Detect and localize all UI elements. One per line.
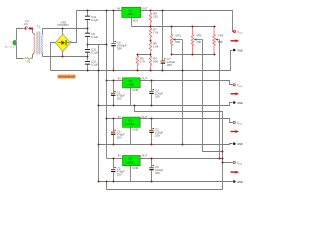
svg-text:OUT: OUT xyxy=(141,154,147,158)
svg-text:0.1µF: 0.1µF xyxy=(91,18,98,22)
svg-text:Vout2: Vout2 xyxy=(237,83,243,88)
resistor R7 xyxy=(149,27,159,40)
wire gnd bus vertical x97.9 xyxy=(98,45,100,182)
wire IC1 out rail to Vout1 xyxy=(141,11,235,32)
svg-text:VR1: VR1 xyxy=(175,34,181,38)
svg-text:2A: 2A xyxy=(24,22,28,26)
wire transformer secondary bottom xyxy=(42,53,44,57)
output terminal Vout2 xyxy=(233,83,243,88)
output terminal Vout3 xyxy=(233,121,243,126)
wire row2 incap leads xyxy=(113,81,115,106)
ground terminal GND1 xyxy=(233,48,243,52)
wire pot bottom line y54 xyxy=(172,54,215,56)
svg-text:0.1µF: 0.1µF xyxy=(91,51,98,55)
wire V+ bus vertical x105.6 down to row4 in xyxy=(106,11,108,159)
wire bridge left vertex down to ground bus xyxy=(51,43,56,71)
capacitor C9 xyxy=(149,165,163,175)
fuse F1 xyxy=(24,19,31,30)
svg-text:LM317: LM317 xyxy=(127,13,135,16)
AC source V1 xyxy=(5,40,17,48)
wire AC source bottom to switch xyxy=(17,45,24,59)
svg-text:LM7809: LM7809 xyxy=(126,123,135,126)
svg-text:GND: GND xyxy=(132,166,138,170)
svg-text:0.1µF: 0.1µF xyxy=(91,63,98,67)
svg-text:500: 500 xyxy=(218,40,223,44)
svg-text:1.0k: 1.0k xyxy=(153,44,159,48)
regulator IC1 xyxy=(117,7,148,23)
svg-text:GND: GND xyxy=(132,128,138,132)
svg-text:IN: IN xyxy=(117,7,120,11)
svg-text:GND: GND xyxy=(237,142,243,146)
svg-text:25V: 25V xyxy=(117,96,122,100)
capacitor C7 electrolytic xyxy=(161,57,176,67)
svg-text:1.5k: 1.5k xyxy=(153,31,159,35)
svg-text:ADJ: ADJ xyxy=(133,19,139,23)
wire bridge bottom stub xyxy=(62,52,64,57)
arrow out2 xyxy=(231,92,240,95)
wire row4 incap leads xyxy=(113,159,115,182)
svg-text:IN: IN xyxy=(118,154,121,158)
potentiometer VR2 xyxy=(191,27,202,55)
regulator IC3 xyxy=(118,115,148,131)
wire C7 leads x162.4 xyxy=(162,11,164,71)
wire AC rail top y28 xyxy=(43,28,88,30)
wire chain connectors xyxy=(138,40,151,57)
wire VR3 wiper drop x219 xyxy=(219,40,221,159)
svg-text:150: 150 xyxy=(153,15,158,19)
ground terminal GND4 xyxy=(233,180,243,184)
output terminal Vout1 xyxy=(233,30,243,35)
wire row3 outcap leads xyxy=(151,119,153,145)
svg-text:IN: IN xyxy=(118,115,121,119)
wire VR1 wiper drop x182 xyxy=(182,40,184,145)
svg-text:25V: 25V xyxy=(155,95,160,99)
svg-text:100: 100 xyxy=(196,40,201,44)
potentiometer VR1 xyxy=(170,27,182,55)
wire AC rail bottom y55.8 xyxy=(43,56,88,58)
arrow out3 xyxy=(231,130,240,133)
capacitor C12 xyxy=(85,11,99,29)
wire row4 out jog to Vout4 xyxy=(141,159,233,163)
resistor R4 xyxy=(149,56,158,71)
transformer T1 xyxy=(31,25,42,55)
svg-text:Vout4: Vout4 xyxy=(237,161,243,166)
capacitor C1 xyxy=(111,90,125,100)
wire row3 gnd line to GND3 xyxy=(99,144,233,145)
wire row3 reg gnd stub xyxy=(130,128,132,145)
svg-text:Vout3: Vout3 xyxy=(237,121,243,126)
wire gnd branch row2 to ring xyxy=(107,106,223,190)
svg-text:VR3: VR3 xyxy=(218,34,224,38)
svg-text:LM7805: LM7805 xyxy=(126,84,135,87)
wire bridge right vertex up to V+ rail xyxy=(71,11,77,43)
potentiometer VR3 xyxy=(213,27,224,55)
svg-text:VR2: VR2 xyxy=(196,34,202,38)
svg-text:DF005M: DF005M xyxy=(58,23,70,27)
wire row3 out to Vout3 xyxy=(141,119,233,123)
svg-text:25V: 25V xyxy=(155,134,160,138)
capacitor C3 xyxy=(111,129,125,139)
output terminal Vout4 xyxy=(233,161,243,166)
svg-text:GND: GND xyxy=(237,180,243,184)
bridge rectifier GR1 xyxy=(55,20,71,51)
wire switch to transformer primary bottom xyxy=(33,53,35,59)
resistor R8 xyxy=(149,12,158,27)
resistor R6 xyxy=(149,41,159,53)
wire VR2 wiper drop x201.5 xyxy=(203,40,223,152)
regulator IC4 xyxy=(118,154,148,170)
svg-text:S1: S1 xyxy=(27,59,31,63)
arrow out1 xyxy=(231,39,240,42)
wire row3 incap leads xyxy=(113,119,115,145)
svg-text:OUT: OUT xyxy=(141,115,147,119)
watermark badge xyxy=(58,75,76,79)
svg-text:OUT: OUT xyxy=(141,76,147,80)
capacitor C11 xyxy=(85,45,99,57)
svg-text:25V: 25V xyxy=(117,173,122,177)
capacitor C8 xyxy=(85,29,99,45)
svg-text:Vout1: Vout1 xyxy=(237,30,243,35)
capacitor C6 electrolytic xyxy=(111,41,127,51)
svg-text:2.7k: 2.7k xyxy=(140,60,146,64)
ground terminal GND2 xyxy=(233,101,243,105)
svg-text:GND: GND xyxy=(237,101,243,105)
svg-text:35V: 35V xyxy=(117,47,122,51)
svg-text:www.circuits.com: www.circuits.com xyxy=(59,76,76,79)
capacitor C4 xyxy=(149,89,163,99)
resistor R5 xyxy=(136,56,146,71)
wire row3 in xyxy=(107,118,123,120)
wire ground bus y70.5 to GND1 xyxy=(51,51,233,71)
wire spur y44.5 xyxy=(88,44,107,46)
svg-text:500: 500 xyxy=(175,40,180,44)
wire V+ rail y10 xyxy=(77,10,122,12)
wire IC1 adj stub xyxy=(131,18,133,27)
svg-text:T1: T1 xyxy=(37,25,41,29)
wire row2 reg gnd stub xyxy=(130,88,132,106)
svg-text:GND: GND xyxy=(132,88,138,92)
regulator IC2 xyxy=(118,76,148,92)
svg-text:560: 560 xyxy=(153,60,158,64)
svg-text:AC mains: AC mains xyxy=(5,46,15,49)
wire row4 gnd line to GND4 xyxy=(99,181,233,183)
svg-text:25V: 25V xyxy=(155,171,160,175)
wire row2 out to Vout2 xyxy=(141,81,233,85)
svg-text:LM7812: LM7812 xyxy=(126,161,135,164)
wire row2 in xyxy=(107,80,123,82)
svg-text:GND: GND xyxy=(237,48,243,52)
capacitor C5 xyxy=(111,167,125,177)
svg-text:IN: IN xyxy=(118,76,121,80)
wire row4 in from bus xyxy=(107,158,123,160)
wire row2 gnd line to GND2 xyxy=(99,103,233,106)
wire C6 leads x113 xyxy=(113,11,115,71)
wire AC source top to fuse line xyxy=(17,29,24,41)
capacitor C2 xyxy=(149,128,163,138)
capacitor C10 xyxy=(85,57,99,71)
wire transformer secondary top to AC rail xyxy=(42,29,44,35)
ground terminal GND3 xyxy=(233,142,243,146)
wire bridge top stub xyxy=(62,29,64,35)
svg-text:0.1µF: 0.1µF xyxy=(91,35,98,39)
wire row2 outcap leads xyxy=(151,81,153,106)
wire fuse to transformer primary top xyxy=(31,29,35,35)
switch S1 xyxy=(24,58,32,64)
svg-text:OUT: OUT xyxy=(142,7,148,11)
wire row4 outcap leads xyxy=(151,159,153,182)
arrow out4 xyxy=(231,171,240,174)
wire adj rail y26 xyxy=(132,26,215,28)
svg-text:25V: 25V xyxy=(117,135,122,139)
wire row4 reg gnd stub xyxy=(130,166,132,182)
svg-text:25V: 25V xyxy=(167,63,172,67)
